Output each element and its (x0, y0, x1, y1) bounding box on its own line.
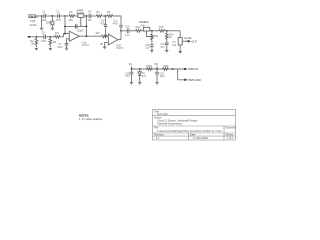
resistor R8 into U1B (95, 32, 108, 38)
svg-text:470p: 470p (113, 22, 119, 25)
svg-text:TREBLE: TREBLE (138, 20, 149, 24)
resistor R11 (136, 26, 142, 32)
fb column U1B with capacitor C9a (105, 16, 107, 36)
resistor R2 shunt (30, 37, 38, 47)
wire to level pot (179, 31, 181, 38)
svg-text:47u: 47u (126, 75, 131, 78)
resistor R7 series (54, 32, 63, 38)
potentiometer GAIN (76, 8, 84, 27)
ground (179, 52, 182, 54)
node n4 (50, 36, 52, 38)
capacitor C2 series (56, 11, 62, 22)
svg-text:10K: 10K (172, 44, 177, 47)
wire R3 to pot (75, 15, 78, 17)
svg-text:470n: 470n (56, 19, 62, 22)
svg-text:NOTES:: NOTES: (79, 113, 89, 117)
svg-text:LINE: LINE (30, 20, 36, 23)
wire n1 down (41, 16, 43, 28)
resistor R12 column (151, 31, 159, 42)
svg-text:C:\Users\chuck\Projects\My doc: C:\Users\chuck\Projects\My docs\Tech 21\… (157, 129, 222, 133)
node p2 (139, 68, 141, 70)
connector OUT (187, 39, 197, 43)
svg-text:Celestial Engineering: Celestial Engineering (157, 121, 182, 125)
svg-text:TL072: TL072 (116, 47, 124, 50)
svg-text:47n: 47n (161, 46, 166, 49)
wire C6 to n4 (46, 36, 55, 38)
capacitor C12 column (145, 41, 153, 50)
svg-text:27-Dec-2020: 27-Dec-2020 (193, 136, 209, 140)
ground (165, 51, 168, 53)
svg-text:20K: 20K (154, 35, 159, 38)
ground (65, 48, 68, 50)
wire noninv U1B (105, 42, 109, 46)
node wiper join (151, 36, 153, 38)
node out2 (120, 30, 122, 32)
svg-text:1 of 1: 1 of 1 (227, 136, 234, 140)
ground (138, 83, 141, 85)
node inv1 (64, 33, 66, 35)
svg-text:C10: C10 (125, 26, 130, 29)
wire pot to node D (150, 30, 159, 32)
node fb1 (64, 26, 66, 28)
wire R13 to node E (165, 30, 181, 32)
svg-text:OUT: OUT (191, 39, 197, 43)
diode D1 (138, 69, 147, 82)
wire U1B output (118, 39, 121, 41)
node out1 (86, 35, 88, 37)
node n3 (36, 36, 38, 38)
ground (40, 28, 43, 30)
capacitor C16 (125, 69, 133, 82)
svg-text:22n: 22n (146, 47, 151, 50)
wire out2 right (121, 30, 127, 32)
ground (155, 83, 158, 85)
svg-text:VB: VB (154, 62, 158, 66)
node D (151, 30, 153, 32)
svg-text:VA: VA (129, 62, 133, 66)
svg-text:1000p: 1000p (46, 22, 53, 25)
connector J2 (28, 36, 32, 38)
capacitor C7 (57, 43, 68, 49)
capacitor C3 shunt (46, 16, 54, 28)
capacitor C5 feedback (75, 24, 84, 32)
svg-text:100n: 100n (41, 40, 47, 43)
resistor R6 (107, 11, 113, 17)
capacitor C6 series (41, 32, 47, 43)
wire C4 to R5 (91, 15, 96, 17)
svg-text:LEVEL: LEVEL (184, 36, 193, 40)
ground (51, 28, 54, 30)
svg-text:4K7: 4K7 (95, 32, 100, 35)
svg-text:220pF: 220pF (77, 30, 84, 33)
potentiometer LEVEL (172, 36, 192, 47)
svg-text:Tech 100: Tech 100 (157, 112, 168, 116)
resistor R13 (159, 26, 165, 32)
op-amp U1B (108, 34, 123, 50)
node inv2 (105, 36, 107, 38)
resistor R14 column (166, 31, 174, 40)
ground (130, 83, 133, 85)
ground (150, 51, 153, 53)
svg-text:100u: 100u (159, 75, 165, 78)
svg-text:1K: 1K (169, 36, 172, 39)
connector 9V (184, 67, 199, 71)
connector GND (184, 78, 201, 82)
wire noninv input (67, 39, 70, 43)
node n2 (52, 15, 54, 17)
wire C1 to C2 (46, 15, 58, 17)
node B junction (86, 15, 88, 17)
notes (79, 113, 103, 121)
wire input to C1 (36, 15, 44, 17)
svg-text:1. Try other opamps.: 1. Try other opamps. (79, 117, 103, 121)
svg-text:TL072: TL072 (82, 44, 90, 47)
svg-text:PWR GND: PWR GND (188, 78, 201, 82)
svg-text:2.2u: 2.2u (125, 34, 130, 37)
wire C2 to node A (60, 15, 69, 17)
svg-text:470p: 470p (100, 22, 106, 25)
capacitor C4 (88, 11, 93, 22)
ground (49, 48, 52, 50)
node n1 (41, 15, 43, 17)
resistor R5 (96, 11, 102, 17)
node E (166, 30, 168, 32)
wire J2 to C (31, 36, 43, 38)
wire C10 to R11 (129, 30, 135, 32)
svg-text:1.1: 1.1 (156, 136, 160, 140)
wire R11 to treble pot (141, 30, 143, 32)
svg-text:PWR 9V: PWR 9V (188, 67, 199, 71)
title block (153, 109, 236, 140)
wire power rail (132, 66, 178, 69)
svg-text:1M: 1M (31, 43, 34, 46)
node p4 (172, 68, 174, 70)
svg-text:5V1: 5V1 (142, 75, 147, 78)
node fb2 (86, 26, 88, 28)
wire U1A output (79, 35, 101, 37)
resistor R19 (163, 65, 169, 70)
potentiometer TREBLE (138, 20, 152, 37)
feedback wire U1A (65, 16, 86, 36)
wire R6 to fb column (113, 16, 121, 25)
wire R5 to node C (102, 15, 107, 17)
wire inv input (64, 34, 70, 37)
wire to power connector (178, 69, 184, 80)
capacitor C9 in fb column (100, 20, 123, 40)
connector J1 guitar input (29, 15, 39, 27)
op-amp U1A (69, 31, 89, 47)
wire pot to C4 (84, 15, 89, 17)
svg-text:LEVEL: LEVEL (29, 24, 37, 27)
svg-text:R13: R13 (159, 26, 164, 29)
svg-text:1M: 1M (53, 41, 56, 44)
capacitor C18 (155, 69, 165, 82)
resistor R17 (146, 65, 152, 70)
wire pot bottom (179, 45, 181, 51)
node p1 (131, 68, 133, 70)
resistor R4 shunt (49, 37, 56, 47)
svg-text:Document: Document (225, 127, 236, 130)
node A junction (64, 15, 66, 17)
capacitor C10 (125, 26, 130, 38)
svg-text:VB: VB (100, 43, 104, 46)
svg-text:10n: 10n (88, 19, 93, 22)
resistor R3 (69, 11, 75, 22)
node C junction (104, 15, 106, 17)
svg-text:4K7: 4K7 (55, 32, 60, 35)
capacitor C15 column (160, 40, 168, 50)
ground (103, 47, 106, 49)
svg-text:10K: 10K (69, 19, 74, 22)
svg-text:100n: 100n (57, 46, 63, 49)
capacitor C1 (41, 11, 47, 22)
ground (35, 48, 38, 50)
